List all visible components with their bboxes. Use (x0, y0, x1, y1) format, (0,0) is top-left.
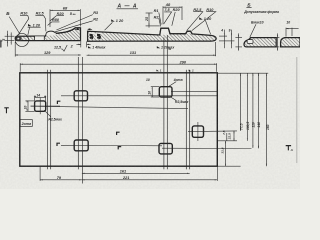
left margin smudge (0, 41, 2, 48)
vdim 25 near hump (146, 13, 160, 28)
section left piece body (15, 28, 80, 41)
square hole 5 (74, 140, 88, 151)
detail circle B (15, 33, 28, 46)
slope 1:20 right with leader (199, 17, 203, 19)
stamp mark 2 (56, 143, 60, 146)
row line B (31, 106, 189, 108)
tip inner white (17, 37, 20, 39)
frame border line right (296, 57, 298, 163)
dim 221 (82, 179, 217, 181)
stamp mark 4 (118, 146, 122, 149)
row line A (61, 95, 217, 97)
slope 1:20 label left piece (28, 24, 32, 26)
dim 290 (20, 63, 216, 72)
stamp mark 3 (116, 132, 120, 135)
stamp mark 1 (57, 101, 61, 104)
view arrow A left (4, 107, 9, 113)
vdim 10 left of hole3 (151, 87, 160, 97)
rotated small dim labels inside start of taper (89, 32, 94, 39)
vertical pair 1 (47, 70, 49, 170)
left end small vertical dims (5, 31, 15, 47)
right end vertical dims (219, 30, 234, 49)
top profile redraw (46, 28, 81, 36)
leader R2,5max hole1 (44, 110, 51, 117)
top edge extension to right (217, 72, 268, 74)
detail block 1 (244, 38, 276, 47)
vdim block1 (235, 33, 242, 50)
vertical pair 2 (77, 57, 79, 169)
square hole 4 (192, 126, 203, 137)
detail nose white pocket (247, 40, 253, 44)
square hole 6 (159, 143, 172, 154)
dim 129 (15, 42, 81, 57)
right side vertical dimension lines (221, 73, 270, 166)
vertical pair 4 (185, 70, 187, 170)
text layer drawn separately (no blur heavy) (6, 2, 216, 36)
ext line for 79 (39, 166, 41, 181)
detail block 2 (281, 38, 300, 47)
note 1:20 max right (157, 46, 160, 48)
tip dark blob (15, 36, 21, 40)
tick marks above pairs (156, 70, 159, 72)
row line D (61, 144, 162, 147)
gap lower dim + note (76, 41, 90, 47)
vdim block2 (275, 33, 280, 50)
square hole 3 (159, 87, 172, 97)
paper background (0, 0, 300, 189)
bump white fill (46, 32, 56, 36)
row line C (188, 130, 237, 133)
dim 79 (40, 179, 82, 181)
dim 14 above hole1 (35, 96, 46, 101)
left height labels (0, 39, 6, 42)
hump white (160, 29, 169, 35)
gap upper arrows (75, 29, 92, 30)
section right piece body (88, 28, 217, 41)
vertical pair 3 (163, 38, 165, 170)
2 otv box (20, 120, 32, 127)
plate outline (20, 73, 218, 166)
slope 1:20 left (111, 19, 115, 21)
view arrow A right (286, 145, 291, 150)
dim 131 (87, 42, 216, 56)
bottom edge extension to right (217, 165, 240, 167)
dim 10 left of hole1 (25, 101, 34, 111)
bottom dimension lines (40, 166, 217, 181)
hole #1 in section (white box) (35, 36, 45, 41)
square hole 2 (74, 91, 87, 101)
dim 161 (82, 172, 190, 174)
square hole 1 (35, 101, 46, 111)
